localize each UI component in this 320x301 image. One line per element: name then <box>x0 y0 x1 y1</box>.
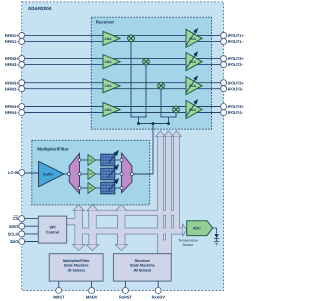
svg-text:Receiver: Receiver <box>96 20 115 25</box>
svg-text:SDIO: SDIO <box>9 224 19 229</box>
svg-text:×2: ×2 <box>89 158 93 162</box>
svg-text:Sensor: Sensor <box>182 243 194 247</box>
svg-text:IFOUT1–: IFOUT1– <box>228 39 245 44</box>
svg-text:Receiver: Receiver <box>135 259 151 263</box>
svg-text:RFIN2+: RFIN2+ <box>5 56 19 61</box>
svg-text:MRST: MRST <box>53 294 65 299</box>
svg-text:LNA: LNA <box>105 60 113 64</box>
svg-text:×2: ×2 <box>89 172 93 176</box>
svg-text:Multiplier/Filter: Multiplier/Filter <box>63 259 90 263</box>
svg-text:Control: Control <box>46 231 60 235</box>
svg-text:MADV: MADV <box>86 294 98 299</box>
svg-text:RFIN3–: RFIN3– <box>5 86 19 91</box>
svg-text:LNA: LNA <box>105 37 113 41</box>
svg-text:SDO: SDO <box>10 239 18 244</box>
svg-text:SCLK: SCLK <box>8 232 19 237</box>
svg-text:RFIN4–: RFIN4– <box>5 110 19 115</box>
svg-text:RFIN2–: RFIN2– <box>5 62 19 67</box>
svg-text:RxADV: RxADV <box>152 294 166 299</box>
svg-text:IFOUT4–: IFOUT4– <box>228 110 245 115</box>
svg-text:RFIN4+: RFIN4+ <box>5 104 19 109</box>
svg-text:IFOUT3+: IFOUT3+ <box>228 80 245 85</box>
svg-text:IFOUT2–: IFOUT2– <box>228 62 245 67</box>
svg-text:Temperature: Temperature <box>178 238 198 242</box>
svg-text:Buffer: Buffer <box>43 173 54 177</box>
svg-text:ADAR2004: ADAR2004 <box>28 6 52 11</box>
svg-text:RFIN1+: RFIN1+ <box>5 33 19 38</box>
svg-text:RFIN1–: RFIN1– <box>5 39 19 44</box>
svg-text:×2: ×2 <box>89 186 93 190</box>
svg-text:IFOUT1+: IFOUT1+ <box>228 33 245 38</box>
svg-text:IFOUT4+: IFOUT4+ <box>228 104 245 109</box>
svg-text:(N States): (N States) <box>68 268 86 272</box>
svg-text:State Machine: State Machine <box>130 264 155 268</box>
svg-text:RFIN3+: RFIN3+ <box>5 80 19 85</box>
svg-text:ADC: ADC <box>193 227 201 231</box>
svg-text:LNA: LNA <box>105 108 113 112</box>
svg-text:Multiplier/Filter: Multiplier/Filter <box>37 146 69 151</box>
svg-text:CS: CS <box>13 216 19 221</box>
svg-text:(M States): (M States) <box>133 268 151 272</box>
svg-text:LO IN: LO IN <box>8 170 18 175</box>
svg-text:RxRST: RxRST <box>119 294 132 299</box>
svg-text:State Machine: State Machine <box>64 264 89 268</box>
svg-text:IFOUT2+: IFOUT2+ <box>228 56 245 61</box>
svg-text:IFOUT3–: IFOUT3– <box>228 86 245 91</box>
svg-text:SPI: SPI <box>49 226 55 230</box>
svg-text:LNA: LNA <box>105 84 113 88</box>
